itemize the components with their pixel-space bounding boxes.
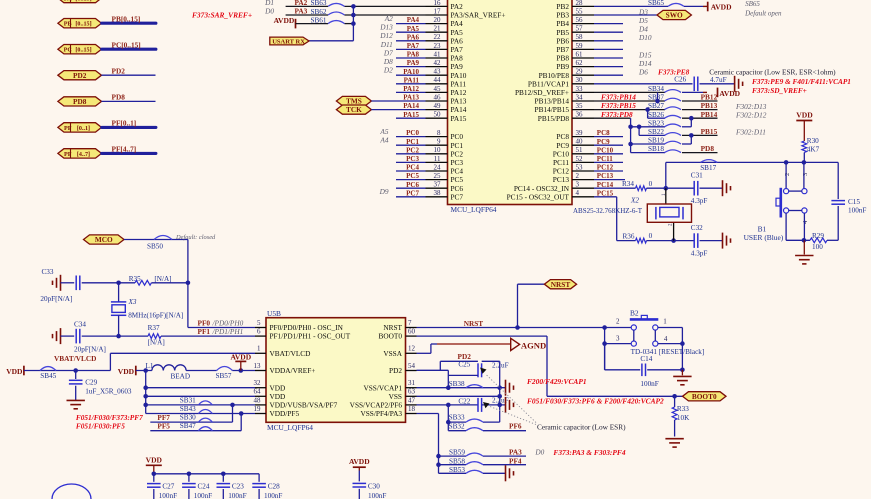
svg-text:[0..15]: [0..15]	[75, 0, 91, 2]
bus PB[0..15]	[102, 22, 156, 25]
net label PC10	[597, 146, 614, 154]
solder bridge SB50	[147, 236, 172, 251]
svg-text:NRST: NRST	[551, 280, 571, 289]
net label PB14	[701, 110, 718, 119]
svg-text:PC1: PC1	[406, 138, 419, 146]
svg-text:D0: D0	[264, 7, 274, 16]
port BOOT0	[683, 392, 727, 401]
svg-text:PB15/PD8: PB15/PD8	[538, 114, 570, 123]
label D10	[638, 33, 652, 42]
wire VDD pin19 via SB43	[146, 413, 255, 415]
svg-text:PC0: PC0	[406, 129, 419, 137]
svg-text:PC[0..15]: PC[0..15]	[112, 40, 141, 49]
svg-text:Ceramic capacitor (Low ESR, ES: Ceramic capacitor (Low ESR, ESR<1ohm)	[709, 68, 836, 77]
label D4	[638, 25, 648, 34]
port PC[0..15]	[58, 45, 102, 54]
svg-text:USER (Blue): USER (Blue)	[744, 233, 784, 242]
svg-text:F302:D12: F302:D12	[735, 110, 767, 119]
svg-text:64: 64	[254, 388, 262, 396]
port PB[0..15]	[58, 19, 102, 28]
svg-text:PC8: PC8	[597, 129, 610, 137]
callout dotted to C22	[483, 402, 536, 425]
svg-text:PC12: PC12	[597, 164, 614, 172]
solder bridge SB17	[700, 160, 717, 172]
wire PC12 right	[594, 170, 623, 172]
svg-text:PF[0..1]: PF[0..1]	[112, 119, 137, 128]
svg-text:SB18: SB18	[648, 145, 664, 153]
wire PA2 with SB63	[286, 5, 426, 7]
wire VSS pin63	[417, 394, 503, 399]
pin 3 PC14 - OSC32_IN stub	[514, 181, 594, 193]
callout dotted to C25	[480, 368, 536, 423]
pin 62 PB9 stub	[556, 59, 594, 71]
pin 36 PB15/PD8 stub	[538, 111, 594, 123]
svg-text:AVDD: AVDD	[230, 353, 251, 362]
pin 54 PD2 stub	[389, 362, 416, 375]
annotation F373:PA3 & F303:PF4	[553, 448, 625, 457]
svg-text:BOOT0: BOOT0	[692, 392, 717, 401]
wire PC13 right	[594, 179, 625, 181]
svg-text:100nF: 100nF	[264, 492, 282, 499]
wire PA4	[396, 23, 426, 25]
svg-text:PA15: PA15	[451, 114, 467, 123]
svg-text:PC3: PC3	[406, 155, 419, 163]
pin 22 PA6 stub	[426, 33, 464, 45]
svg-text:20: 20	[434, 16, 442, 24]
label D9	[379, 187, 389, 196]
pin 20 PA4 stub	[426, 16, 464, 28]
pin 51 PC10 stub	[553, 146, 594, 158]
net label PF1	[198, 327, 244, 336]
wire pin34	[594, 100, 665, 102]
pin label 3	[616, 334, 620, 342]
svg-text:VSS/PF4/PA3: VSS/PF4/PA3	[360, 409, 402, 418]
pin 42 PA9 stub	[426, 59, 464, 71]
capacitor C15	[831, 162, 866, 240]
signal ground AGND	[511, 338, 547, 350]
svg-text:PA3: PA3	[295, 7, 308, 16]
svg-text:Default open: Default open	[744, 10, 782, 18]
wire OSC_IN	[188, 283, 255, 328]
label F302:D11	[735, 128, 766, 137]
svg-text:/PD1/PH1: /PD1/PH1	[212, 327, 244, 336]
svg-text:0: 0	[649, 232, 653, 240]
svg-text:VSSA: VSSA	[383, 349, 402, 358]
wire PC3	[396, 161, 426, 163]
wire PB8	[594, 57, 623, 59]
ground (C26)	[735, 76, 743, 92]
ground (VCAP2)	[506, 397, 514, 413]
svg-text:42: 42	[434, 59, 442, 67]
wire TCK-PA14	[371, 109, 425, 111]
junction PA3/USART	[351, 13, 356, 18]
port PD8	[58, 97, 102, 106]
net label PA8	[407, 51, 420, 59]
svg-text:3: 3	[802, 173, 809, 176]
pin 8 PC0 stub	[426, 129, 464, 141]
label MCU_LQFP64 (top part)	[451, 205, 497, 214]
svg-text:PF1/PD1/PH1 - OSC_OUT: PF1/PD1/PH1 - OSC_OUT	[270, 332, 351, 341]
wire NRST port riser	[518, 284, 545, 327]
solder bridge SB65	[648, 0, 684, 7]
wire pin33	[594, 91, 665, 93]
pin 28 PB2 stub	[556, 0, 594, 11]
wire NRST	[417, 327, 632, 329]
wire PB14	[682, 117, 718, 119]
solder bridge SB62	[311, 8, 345, 16]
junction VBAT/C29	[73, 368, 78, 373]
wire PC2	[396, 153, 426, 155]
svg-text:BOOT0: BOOT0	[378, 332, 402, 341]
svg-text:VDDA/VREF+: VDDA/VREF+	[270, 366, 316, 375]
label F302:D12	[735, 110, 767, 119]
wire PC1	[396, 144, 426, 146]
net label PC6	[406, 181, 419, 189]
svg-text:[0..15]: [0..15]	[75, 22, 91, 28]
pin 25 PC5 stub	[426, 172, 464, 184]
svg-text:17: 17	[434, 7, 442, 15]
svg-text:46: 46	[434, 93, 442, 101]
wire decoupling rail	[154, 473, 259, 475]
bus PF[4..7]	[102, 152, 156, 155]
resistor R37	[119, 324, 255, 346]
ground (B1)	[795, 240, 813, 264]
wire VDD-SB45	[24, 370, 76, 372]
label D7	[383, 48, 393, 57]
svg-text:F373:PD8: F373:PD8	[601, 110, 633, 119]
junction SB38 left	[446, 385, 451, 390]
pin 49 PA14 stub	[426, 102, 467, 114]
svg-text:33: 33	[576, 85, 584, 93]
svg-text:9: 9	[437, 138, 441, 146]
svg-text:59: 59	[576, 42, 584, 50]
MCU U5B body (power part)	[266, 318, 406, 423]
svg-text:SB59: SB59	[449, 449, 465, 457]
svg-text:R30: R30	[807, 137, 819, 145]
svg-text:PC9: PC9	[597, 138, 610, 146]
svg-text:F302:D11: F302:D11	[735, 128, 766, 137]
net label VBAT/VLCD	[54, 354, 96, 363]
power port VDD (R30)	[796, 111, 813, 141]
capacitor C33	[40, 268, 118, 303]
port TMS	[336, 96, 371, 105]
svg-text:C34: C34	[74, 320, 86, 328]
pin 18 VSS/PF4/PA3 stub	[360, 405, 416, 418]
note Default open	[744, 10, 782, 18]
label D6	[638, 68, 648, 77]
svg-text:SB61: SB61	[311, 16, 327, 24]
svg-text:55: 55	[576, 7, 584, 15]
svg-text:PA5: PA5	[407, 25, 420, 33]
wire PB10	[594, 74, 623, 76]
svg-text:18: 18	[408, 405, 416, 413]
wire PC9 right	[594, 144, 623, 146]
annotation F373:PD8	[601, 110, 633, 119]
label D1	[264, 0, 274, 7]
junction C34/X3/R37	[116, 334, 121, 339]
net label PC9	[597, 138, 610, 146]
net label PB[0..15]	[112, 14, 141, 23]
pin 17 PA3/SAR_VREF+ stub	[426, 7, 506, 19]
junction NRST port	[515, 325, 520, 330]
svg-text:[N/A]: [N/A]	[148, 338, 165, 346]
solder bridge SB23	[648, 119, 681, 127]
annotation F373:PB15	[601, 101, 636, 110]
net label PA12	[403, 85, 419, 93]
svg-text:62: 62	[576, 59, 584, 67]
wire PC14-R34	[594, 187, 636, 189]
net label PC3	[406, 155, 419, 163]
junction C22 left	[446, 403, 451, 408]
svg-text:PA15: PA15	[403, 111, 419, 119]
net label PC12	[597, 164, 614, 172]
svg-text:PD2: PD2	[73, 71, 87, 80]
svg-text:45: 45	[434, 85, 442, 93]
label D14	[638, 59, 652, 68]
annotation F373:SD_VREF+	[752, 86, 807, 95]
wire PD8	[102, 100, 156, 102]
solder bridge SB34	[648, 85, 681, 93]
svg-text:SB38: SB38	[449, 380, 465, 388]
pin 9 PC1 stub	[426, 138, 464, 150]
wire PD8 out	[682, 152, 718, 154]
wire VDD pin32	[143, 385, 255, 390]
net label PC1	[406, 138, 419, 146]
wire B2 right tie	[658, 328, 685, 370]
pin 13 VDDA/VREF+ stub	[254, 362, 316, 375]
wire PB7	[594, 48, 623, 50]
net label PD8 out	[701, 144, 715, 153]
junction SB59	[436, 454, 441, 459]
wire PA12	[396, 91, 426, 93]
pin 29 PB10/PE8 stub	[539, 68, 594, 80]
svg-text:57: 57	[576, 25, 584, 33]
svg-text:C31: C31	[691, 171, 703, 179]
wire SB59 row	[439, 455, 527, 457]
bus PF[0..1]	[102, 126, 156, 129]
port USART RX	[270, 37, 309, 45]
wire PA8	[396, 57, 426, 59]
wire C25 right	[482, 361, 500, 422]
svg-text:20pF[N/A]: 20pF[N/A]	[40, 295, 72, 303]
net label PF6	[509, 421, 522, 430]
svg-text:X2: X2	[630, 197, 639, 205]
svg-text:C14: C14	[640, 355, 652, 363]
wire R34-C31	[647, 187, 695, 189]
net label PD2	[112, 66, 126, 75]
svg-text:100nF: 100nF	[228, 492, 246, 499]
svg-text:VDD/PF5: VDD/PF5	[270, 409, 300, 418]
wire PC0	[396, 136, 426, 138]
ground (VCAP1)	[506, 380, 514, 396]
net label PA3	[295, 7, 308, 16]
net label PF[0..1]	[112, 119, 137, 128]
svg-text:PF[4..7]: PF[4..7]	[112, 145, 137, 154]
svg-text:SB22: SB22	[648, 128, 664, 136]
svg-text:25: 25	[434, 172, 442, 180]
pin 31 VSS/VCAP1 stub	[363, 379, 416, 392]
junction X2 top	[664, 186, 669, 191]
MCU U5A body (LQFP64 ports part)	[448, 0, 573, 205]
svg-text:52: 52	[576, 155, 584, 163]
svg-text:24: 24	[434, 163, 442, 171]
solder bridge SB33	[449, 414, 483, 423]
svg-text:[0..15]: [0..15]	[75, 48, 91, 54]
solder bridge SB38	[449, 380, 483, 388]
svg-text:PA7: PA7	[407, 42, 420, 50]
svg-text:PA4: PA4	[407, 16, 420, 24]
svg-text:4K7: 4K7	[807, 146, 820, 154]
solder bridge SB57	[216, 367, 233, 381]
svg-text:L1: L1	[146, 362, 154, 370]
ground (C32)	[723, 233, 731, 249]
svg-text:PB14: PB14	[701, 110, 718, 119]
svg-text:PC15 - OSC32_OUT: PC15 - OSC32_OUT	[507, 192, 570, 201]
svg-text:AVDD: AVDD	[711, 3, 732, 12]
svg-text:20pF[N/A]: 20pF[N/A]	[74, 345, 106, 353]
svg-text:PD8: PD8	[112, 93, 126, 102]
wire R30-SB17	[803, 153, 805, 163]
capacitor C29	[69, 371, 132, 401]
svg-text:ABS25-32.768KHZ-6-T: ABS25-32.768KHZ-6-T	[573, 207, 643, 215]
label MCU_LQFP64 (bottom part)	[267, 423, 313, 432]
wire PF5 via SB47	[150, 411, 243, 431]
svg-text:23: 23	[434, 42, 442, 50]
wire C32-gnd	[700, 240, 723, 242]
svg-text:22: 22	[434, 33, 442, 41]
junction R33	[672, 394, 677, 399]
port NRST	[544, 280, 576, 289]
pin 45 PA12 stub	[426, 85, 467, 97]
resistor R29	[810, 232, 827, 251]
svg-text:SB50: SB50	[147, 242, 163, 250]
solder bridge SB53	[449, 466, 483, 474]
wire C26-gnd	[700, 83, 735, 85]
svg-text:SB32: SB32	[449, 422, 465, 430]
port TCK	[336, 105, 371, 114]
pin 47 VSS/VCAP2/PF6 stub	[350, 396, 417, 409]
svg-text:D9: D9	[379, 187, 389, 196]
label B2	[630, 309, 639, 318]
svg-text:11: 11	[434, 155, 441, 163]
net label PC5	[406, 172, 419, 180]
svg-text:47: 47	[408, 396, 416, 404]
pin 7 NRST stub	[383, 319, 416, 332]
net label PB12	[701, 93, 718, 102]
wire C25 left-lower	[448, 370, 478, 387]
svg-text:TCK: TCK	[346, 105, 362, 114]
svg-text:32: 32	[254, 379, 262, 387]
pin 5 PF0/PD0/PH0 - OSC_IN stub	[255, 319, 344, 332]
wire pin47-C22	[417, 404, 479, 406]
svg-text:100nF: 100nF	[159, 492, 177, 499]
svg-text:PA10: PA10	[403, 68, 419, 76]
label A2	[384, 14, 393, 23]
label A4	[379, 136, 388, 145]
net label PC0	[406, 129, 419, 137]
svg-text:PC5: PC5	[406, 172, 419, 180]
svg-text:4.3pF: 4.3pF	[691, 197, 708, 205]
svg-text:PD2: PD2	[112, 66, 126, 75]
svg-text:SB53: SB53	[449, 466, 465, 474]
pin 4 PC15 - OSC32_OUT stub	[507, 189, 594, 201]
svg-text:SB65: SB65	[745, 0, 760, 8]
pin 39 PC8 stub	[556, 129, 594, 141]
svg-text:SB27: SB27	[648, 102, 664, 110]
svg-text:C33: C33	[42, 268, 54, 276]
svg-text:PD8: PD8	[73, 97, 87, 106]
wire SB32 row	[448, 430, 526, 432]
svg-text:PC11: PC11	[597, 155, 613, 163]
wire SB23 stub	[631, 126, 665, 128]
wire PA5	[396, 31, 426, 33]
wire PC4	[396, 170, 426, 172]
annotation F373:SAR_VREF+	[192, 11, 252, 20]
pin 32 VDD stub	[254, 379, 286, 392]
pin 48 VDD/VUSB/VSA/PF7 stub	[254, 396, 338, 409]
svg-text:C32: C32	[691, 224, 703, 232]
solder bridge SB63	[311, 0, 345, 7]
wire PC5	[396, 179, 426, 181]
svg-text:3: 3	[616, 334, 620, 342]
label U5B	[267, 309, 281, 318]
capacitor C22	[458, 396, 508, 412]
solder bridge SB43	[180, 405, 213, 414]
wire SB17 net	[666, 162, 838, 188]
svg-text:AVDD: AVDD	[274, 16, 295, 25]
power port VDD (decoupling)	[146, 455, 163, 474]
label D11	[380, 40, 393, 49]
ground (SB53)	[506, 465, 514, 481]
tie SB19out-PB15	[682, 133, 694, 144]
svg-text:Ceramic capacitor (Low ESR): Ceramic capacitor (Low ESR)	[537, 422, 626, 431]
svg-text:C28: C28	[268, 482, 280, 490]
svg-text:AGND: AGND	[521, 340, 546, 350]
net label PA13	[403, 94, 419, 102]
svg-text:PA8: PA8	[407, 51, 420, 59]
net label PC8	[597, 129, 610, 137]
svg-text:SB19: SB19	[648, 137, 664, 145]
junction pin36-SB19	[628, 142, 633, 147]
wire pin18 branch	[417, 414, 467, 474]
resistor R33	[672, 396, 690, 436]
wire B2 left tie	[602, 325, 607, 370]
junction C14 gnd	[680, 368, 685, 373]
power port AVDD (SB34)	[682, 88, 741, 98]
ground (C33)	[53, 275, 61, 291]
svg-text:PC6: PC6	[406, 181, 419, 189]
crystal X2	[630, 188, 692, 240]
junction R35/SB50/OSCIN	[186, 281, 191, 286]
capacitor C24	[182, 472, 212, 499]
inductor L1 BEAD	[146, 362, 191, 380]
svg-text:40: 40	[576, 138, 584, 146]
pin 58 PB6 stub	[556, 33, 594, 45]
capacitor C30	[353, 471, 387, 499]
wire pin36 step	[594, 118, 631, 152]
label A5	[379, 127, 388, 136]
capacitor C34	[61, 320, 119, 353]
svg-text:SWO: SWO	[666, 11, 683, 20]
label TD-0341 [RESET/Black]	[631, 348, 705, 356]
svg-text:MCO: MCO	[95, 235, 113, 244]
svg-text:56: 56	[576, 16, 584, 24]
wire PB6	[594, 40, 623, 42]
svg-text:1uF_X5R_0603: 1uF_X5R_0603	[85, 388, 132, 396]
wire VDD pin48 via SB31	[143, 403, 255, 408]
svg-text:30: 30	[576, 76, 584, 84]
svg-text:B1: B1	[758, 225, 767, 234]
